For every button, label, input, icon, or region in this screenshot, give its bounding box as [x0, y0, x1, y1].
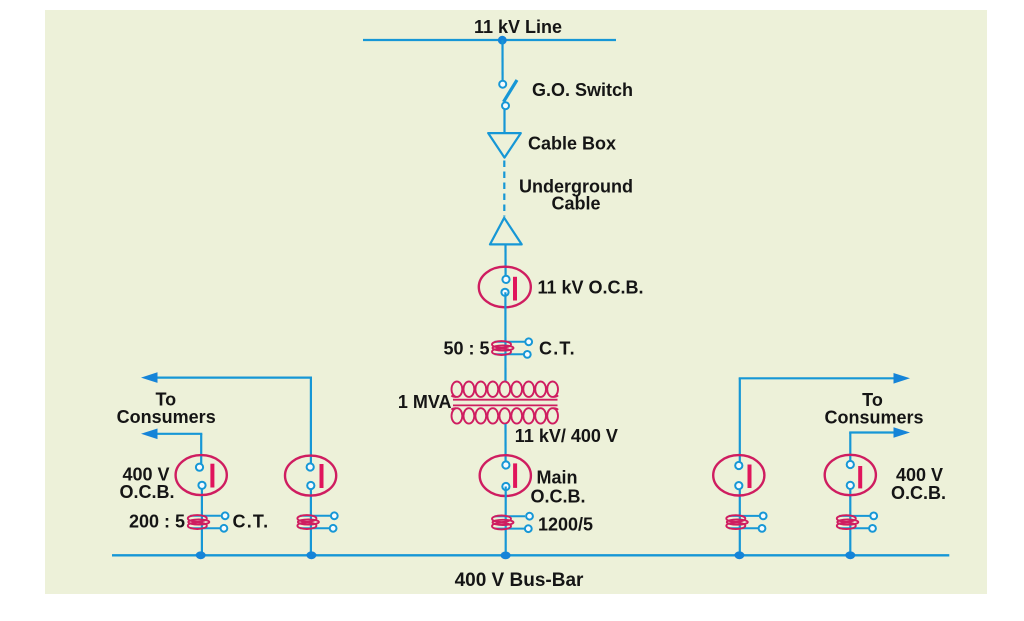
wire: outer-left branch vertical — [200, 434, 203, 555]
arrow: to consumers (inner-left) — [141, 372, 158, 383]
svg-text:O.C.B.: O.C.B. — [531, 486, 586, 506]
switch: G.O. switch (blade with two contacts) — [499, 80, 517, 109]
breaker: inner-left 400 V O.C.B. — [285, 456, 336, 496]
svg-text:Consumers: Consumers — [824, 407, 923, 427]
junction: main feed on bus-bar — [501, 552, 511, 560]
wire: outer-right branch vertical — [849, 433, 851, 556]
svg-text:Cable: Cable — [551, 194, 600, 214]
CT: inner-left branch current transformer — [297, 512, 337, 531]
CT: current transformer 50:5 — [492, 338, 532, 357]
wire: drop from 11 kV line to G.O. switch — [501, 40, 503, 81]
svg-text:Cable Box: Cable Box — [528, 134, 616, 154]
wire: inner-left branch vertical — [310, 378, 312, 555]
transformer T1: 1 MVA 11 kV / 400 V — [451, 382, 558, 424]
CT: outer-right branch current transformer — [837, 513, 877, 532]
wire: G.O. switch to cable box — [503, 109, 505, 133]
wire: 11 kV O.C.B. to C.T. — [504, 292, 506, 381]
wire: inner-right branch vertical — [739, 378, 741, 555]
breaker: Main O.C.B. — [480, 455, 531, 496]
svg-text:400 V Bus-Bar: 400 V Bus-Bar — [455, 570, 584, 591]
svg-text:C.T.: C.T. — [233, 512, 270, 532]
arrow: to consumers (outer-right) — [894, 427, 911, 438]
wire: transformer to Main O.C.B. — [504, 424, 506, 465]
label "400 V O.C.B." (left) — [119, 465, 174, 503]
CT: current transformer 1200/5 — [492, 513, 533, 532]
label "Main O.C.B." — [531, 468, 586, 507]
wire: cable box to 11 kV O.C.B. — [504, 244, 506, 279]
breaker: inner-right 400 V O.C.B. — [713, 455, 764, 495]
wire: inner-right branch horizontal to consumers — [739, 377, 897, 379]
junction: inner-left branch on bus-bar — [306, 551, 316, 559]
junction: outer-right branch on bus-bar — [845, 551, 855, 559]
arrow: to consumers (inner-right) — [894, 373, 911, 384]
svg-text:O.C.B.: O.C.B. — [119, 482, 174, 502]
svg-text:11 kV O.C.B.: 11 kV O.C.B. — [538, 278, 644, 298]
svg-text:Consumers: Consumers — [117, 407, 216, 427]
cable box (downward triangle) — [488, 133, 521, 158]
svg-text:50 : 5: 50 : 5 — [443, 339, 489, 359]
svg-text:11 kV Line: 11 kV Line — [474, 17, 562, 37]
junction: inner-right branch on bus-bar — [734, 551, 744, 559]
wire: inner-left branch horizontal to consumers — [153, 377, 312, 379]
svg-text:1200/5: 1200/5 — [538, 515, 593, 535]
breaker: outer-left 400 V O.C.B. — [176, 455, 227, 495]
svg-text:C.T.: C.T. — [539, 339, 576, 359]
label "To Consumers" (left) — [117, 390, 216, 428]
junction: outer-left branch on bus-bar — [196, 551, 206, 559]
svg-text:G.O. Switch: G.O. Switch — [532, 80, 633, 100]
label "Underground Cable" — [519, 177, 633, 214]
wire: outer-left branch horizontal to consumers — [153, 433, 202, 435]
wire: underground cable (dashed) — [503, 161, 505, 217]
wire: Main O.C.B. to CT 1200/5 — [505, 487, 507, 556]
svg-text:Main: Main — [537, 468, 578, 488]
breaker: outer-right 400 V O.C.B. — [825, 455, 876, 495]
CT: outer-left branch current transformer 200:5 — [188, 512, 229, 531]
svg-text:O.C.B.: O.C.B. — [891, 483, 946, 503]
svg-text:11 kV/ 400 V: 11 kV/ 400 V — [515, 426, 618, 446]
cable box terminal (upward triangle) — [490, 218, 522, 245]
breaker: 11 kV O.C.B. — [479, 267, 531, 308]
bus: 400 V bus-bar — [112, 554, 949, 556]
arrow: to consumers (outer-left) — [141, 429, 158, 440]
label "400 V O.C.B." (right) — [891, 465, 946, 503]
svg-text:1 MVA: 1 MVA — [398, 392, 452, 412]
svg-text:200 : 5: 200 : 5 — [129, 512, 185, 532]
wire: outer-right branch horizontal to consumers — [849, 431, 897, 433]
junction: tap on 11 kV line — [498, 36, 507, 45]
wire: 11 kV incoming line (horizontal) — [363, 39, 616, 41]
svg-text:400 V: 400 V — [896, 465, 943, 485]
CT: inner-right branch current transformer — [726, 513, 766, 532]
label "To Consumers" (right) — [824, 390, 923, 428]
